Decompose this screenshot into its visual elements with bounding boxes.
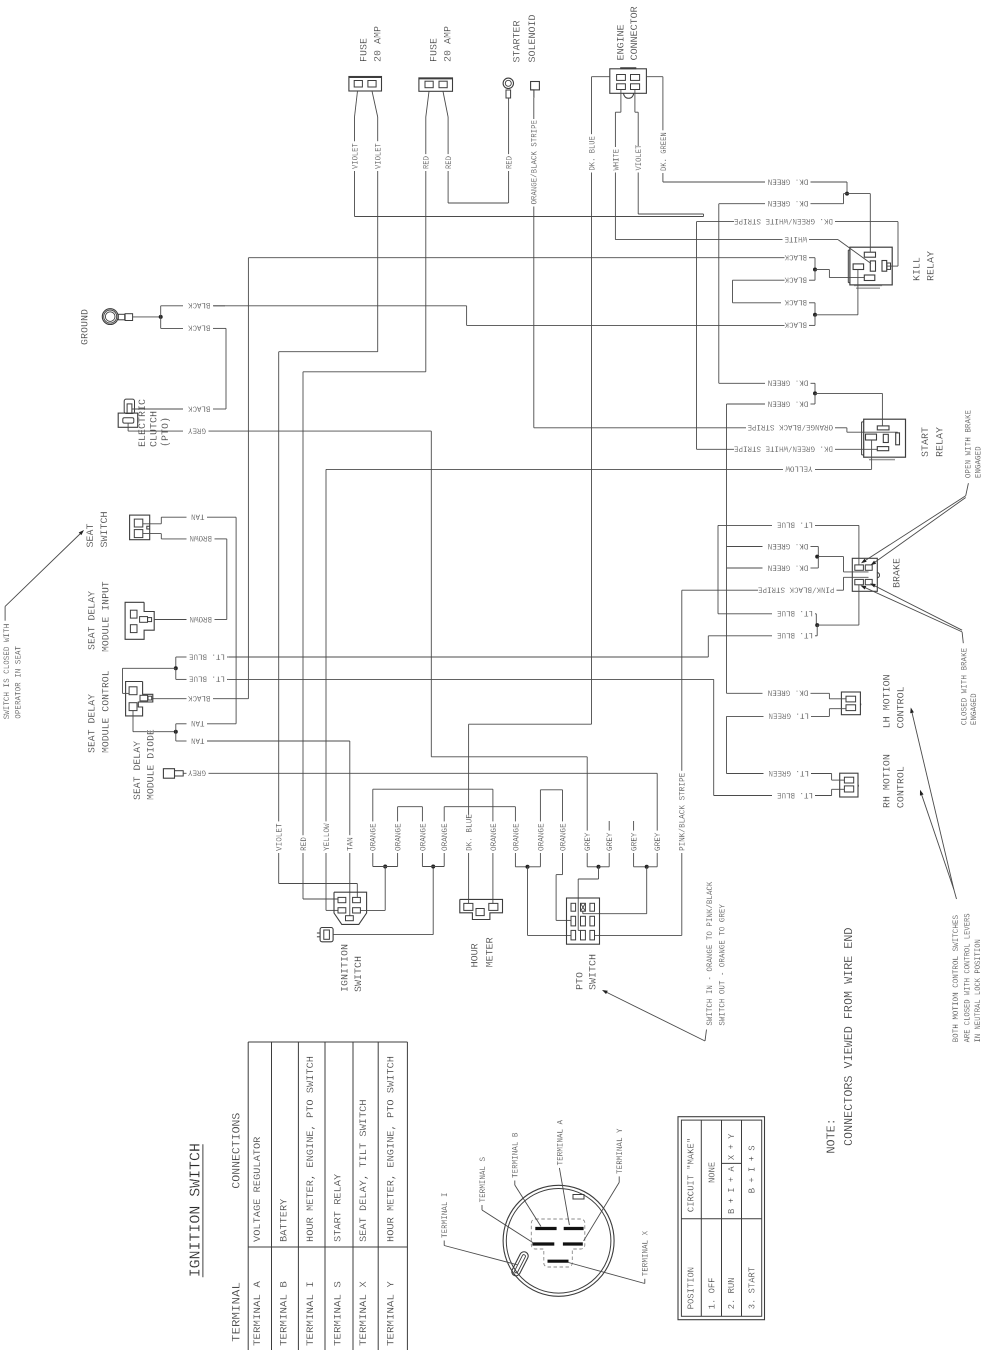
position table row 1 OFF / NONE — [707, 1162, 718, 1310]
leader both-motion to LH CONTROL — [910, 708, 956, 900]
svg-text:TERMINAL X: TERMINAL X — [359, 1281, 370, 1346]
svg-text:ELECTRIC: ELECTRIC — [137, 399, 149, 447]
svg-text:2. RUN: 2. RUN — [726, 1278, 737, 1310]
wire brake DK. GREEN into pin — [818, 557, 868, 572]
svg-text:START RELAY: START RELAY — [334, 1174, 345, 1242]
wire ORANGE stub 4 — [441, 807, 450, 867]
wire start ORANGE/BLACK STRIPE stub — [747, 422, 897, 432]
svg-text:1. OFF: 1. OFF — [707, 1277, 718, 1309]
leader open-with-brake to brake pins — [861, 483, 968, 565]
seat switch connector — [130, 515, 150, 540]
svg-text:ORANGE: ORANGE — [490, 823, 499, 851]
wire seat delay LT. BLUE to connector — [123, 668, 176, 693]
wire engine WHITE — [612, 90, 621, 240]
wire seat switch BROWN — [143, 533, 227, 619]
leader switch-is-closed to seat switch label — [5, 530, 84, 621]
position table header CIRCUIT MAKE — [685, 1138, 696, 1212]
svg-text:BRAKE: BRAKE — [891, 558, 903, 588]
svg-text:RH MOTION: RH MOTION — [881, 754, 893, 808]
wire ORANGE stub 8 — [556, 797, 570, 920]
svg-text:DK. GREEN: DK. GREEN — [768, 198, 809, 207]
wire ignition ORANGE stub 3 — [419, 807, 428, 867]
svg-text:TERMINAL: TERMINAL — [232, 1282, 244, 1342]
label STARTER SOLENOID — [511, 15, 539, 63]
wire hour meter ORANGE stub 5 — [490, 789, 499, 903]
label FUSE 20 AMP (F2) — [429, 26, 455, 62]
svg-text:MODULE INPUT: MODULE INPUT — [101, 581, 113, 652]
label TERMINAL Y — [616, 1128, 625, 1174]
svg-text:RED: RED — [506, 156, 515, 169]
ignition switch table grid — [248, 1042, 407, 1350]
wire GREY stub 1 (clutch) — [584, 821, 598, 867]
wire orange jog O2-O3 — [398, 806, 423, 808]
wire clutch BLACK stub — [132, 403, 211, 412]
terminal pad A — [564, 1227, 584, 1230]
wire engine VIOLET — [635, 90, 704, 217]
svg-text:ORANGE: ORANGE — [370, 823, 379, 851]
label START RELAY — [920, 426, 946, 457]
svg-text:TERMINAL X: TERMINAL X — [642, 1231, 651, 1277]
wire brake DK. GREEN stub 2 — [727, 557, 819, 572]
wire start YELLOW stub — [326, 440, 872, 820]
wire orange bus top — [373, 788, 493, 790]
svg-text:YELLOW: YELLOW — [323, 823, 332, 851]
svg-text:SWITCH: SWITCH — [353, 956, 365, 992]
junction kill DK. GREEN — [845, 192, 849, 196]
svg-text:IN NEUTRAL LOCK POSITION: IN NEUTRAL LOCK POSITION — [974, 939, 983, 1042]
wire ORANGE stub 7 — [528, 790, 547, 867]
seat delay module diode connector — [163, 769, 183, 779]
svg-text:GREY: GREY — [584, 832, 593, 851]
fuse F2 20A — [419, 78, 453, 91]
junction brake LT. BLUE — [815, 623, 819, 627]
wire orange A to ignition pin — [360, 867, 397, 911]
svg-text:CONTROL: CONTROL — [896, 766, 908, 808]
svg-text:DK. GREEN: DK. GREEN — [768, 398, 809, 407]
svg-text:DK. GREEN: DK. GREEN — [768, 541, 809, 550]
svg-text:RED: RED — [423, 156, 432, 169]
wire RH LT. GREEN stub — [727, 768, 845, 780]
leader TERMINAL S to pad S — [482, 1205, 534, 1243]
svg-text:SWITCH IN - ORANGE TO PINK/BLA: SWITCH IN - ORANGE TO PINK/BLACK — [706, 881, 715, 1025]
svg-text:3. START: 3. START — [746, 1267, 757, 1310]
label TERMINAL B — [512, 1132, 521, 1178]
terminal pad Y — [563, 1242, 583, 1245]
svg-text:SOLENOID: SOLENOID — [527, 15, 539, 63]
wire ignition TAN label — [347, 820, 356, 916]
svg-text:BLACK: BLACK — [188, 323, 211, 332]
wire start DK. GREEN to coil pin — [815, 393, 882, 426]
svg-text:ENGAGED: ENGAGED — [974, 446, 983, 478]
svg-text:VOLTAGE REGULATOR: VOLTAGE REGULATOR — [253, 1137, 264, 1242]
junction grey E — [645, 865, 649, 869]
svg-text:SWITCH IS CLOSED WITH: SWITCH IS CLOSED WITH — [3, 624, 12, 720]
svg-text:DK. GREEN: DK. GREEN — [660, 132, 669, 171]
wire kill DK. GREEN stub 1 — [663, 176, 847, 193]
wire ignition RED label — [300, 820, 338, 900]
svg-text:TAN: TAN — [347, 837, 356, 851]
svg-text:B + I + S: B + I + S — [746, 1145, 757, 1193]
svg-text:BLACK: BLACK — [784, 320, 807, 329]
starter solenoid spade terminal — [531, 82, 540, 98]
ignition switch key slot — [510, 1250, 529, 1277]
electric clutch connector — [118, 399, 138, 427]
svg-text:BLACK: BLACK — [784, 297, 807, 306]
svg-text:GREY: GREY — [606, 832, 615, 851]
wire seat delay LT. BLUE stub 2 — [176, 668, 229, 682]
wire kill BLACK to relay left pin — [815, 270, 858, 315]
svg-text:LT. BLUE: LT. BLUE — [189, 651, 225, 660]
wire orange jog O4-O6 — [444, 806, 515, 808]
LH motion control connector — [841, 692, 860, 715]
svg-text:BLACK: BLACK — [188, 403, 211, 412]
note SWITCH IS CLOSED WITH OPERATOR IN SEAT — [3, 624, 24, 720]
hour meter connector — [460, 899, 503, 919]
svg-text:NOTE:: NOTE: — [824, 1118, 838, 1153]
svg-text:TERMINAL I: TERMINAL I — [441, 1193, 450, 1239]
svg-text:SWITCH: SWITCH — [587, 954, 599, 990]
note CONNECTORS VIEWED FROM WIRE END — [842, 928, 856, 1147]
svg-text:WHITE: WHITE — [612, 149, 621, 171]
svg-text:HOUR METER, ENGINE, PTO SWITCH: HOUR METER, ENGINE, PTO SWITCH — [387, 1056, 398, 1242]
wire kill BLACK stub 2 — [733, 270, 816, 303]
ignition switch face circle — [503, 1185, 614, 1296]
svg-text:VIOLET: VIOLET — [276, 823, 285, 851]
PTO switch connector — [567, 898, 600, 944]
position table row 2 RUN / B+I+A X+Y — [726, 1133, 737, 1309]
svg-text:CIRCUIT "MAKE": CIRCUIT "MAKE" — [685, 1138, 696, 1212]
svg-text:VIOLET: VIOLET — [351, 143, 360, 169]
wire RH LT. BLUE stub — [229, 679, 845, 798]
svg-text:RELAY: RELAY — [934, 426, 946, 457]
svg-text:SWITCH: SWITCH — [99, 512, 111, 548]
label FUSE 20 AMP (F1) — [359, 26, 385, 62]
svg-text:BLACK: BLACK — [784, 275, 807, 284]
junction seat delay LT. BLUE — [174, 666, 178, 670]
svg-text:KILL: KILL — [911, 257, 923, 281]
svg-text:DK. GREEN: DK. GREEN — [768, 688, 809, 697]
svg-text:ORANGE/BLACK STRIPE: ORANGE/BLACK STRIPE — [747, 422, 833, 431]
wire ORANGE stub 6 — [512, 807, 527, 867]
label SEAT DELAY MODULE INPUT — [87, 581, 113, 652]
svg-text:CONNECTIONS: CONNECTIONS — [232, 1112, 244, 1188]
engine connector — [610, 68, 647, 98]
svg-text:HOUR: HOUR — [470, 943, 482, 968]
terminal pad S — [532, 1242, 554, 1245]
junction orange B — [431, 865, 435, 869]
svg-text:SEAT DELAY, TILT SWITCH: SEAT DELAY, TILT SWITCH — [359, 1099, 370, 1242]
svg-text:TERMINAL Y: TERMINAL Y — [387, 1281, 398, 1346]
svg-text:ORANGE: ORANGE — [512, 823, 521, 851]
junction grey D — [597, 865, 601, 869]
svg-text:TAN: TAN — [191, 512, 205, 521]
ignition switch pad outline dashed — [531, 1219, 585, 1267]
svg-text:LT. BLUE: LT. BLUE — [777, 608, 813, 617]
svg-text:TAN: TAN — [191, 735, 205, 744]
leader TERMINAL A to pad A — [559, 1168, 569, 1225]
svg-text:20 AMP: 20 AMP — [443, 26, 455, 62]
svg-text:SEAT DELAY: SEAT DELAY — [87, 590, 99, 650]
svg-text:LT. BLUE: LT. BLUE — [777, 520, 813, 529]
note OPEN WITH BRAKE ENGAGED — [965, 410, 984, 478]
svg-text:DK. GREEN: DK. GREEN — [768, 176, 809, 185]
svg-text:TERMINAL S: TERMINAL S — [334, 1281, 345, 1346]
svg-text:RED: RED — [445, 156, 454, 169]
title IGNITION SWITCH (underlined) — [187, 1143, 204, 1277]
svg-text:GREY: GREY — [654, 832, 663, 851]
svg-text:ARE CLOSED WITH CONTROL LEVERS: ARE CLOSED WITH CONTROL LEVERS — [963, 913, 972, 1042]
svg-text:GROUND: GROUND — [79, 309, 91, 345]
junction orange A — [383, 865, 387, 869]
svg-text:DK. BLUE: DK. BLUE — [588, 136, 597, 171]
svg-text:RELAY: RELAY — [926, 250, 938, 281]
wire brake LT. BLUE stub 1 — [718, 520, 859, 614]
wire fuse F2 right RED to solenoid — [443, 91, 508, 203]
terminal pad X — [548, 1260, 569, 1263]
svg-text:FUSE: FUSE — [429, 38, 441, 62]
label TERMINAL S — [479, 1157, 488, 1203]
svg-text:BLACK: BLACK — [188, 693, 211, 702]
wire solenoid ORANGE/BLACK STRIPE — [531, 98, 746, 428]
header TERMINAL — [232, 1282, 244, 1342]
wire start DK. GREEN/WHITE STRIPE stub — [697, 222, 878, 453]
svg-text:ENGINE: ENGINE — [615, 24, 627, 60]
ignition switch connector — [334, 892, 367, 924]
leader both-motion to RH CONTROL — [920, 790, 954, 890]
wire orange jog O7-O8 — [540, 790, 562, 797]
wire brake DK. GREEN stub 1 — [727, 541, 819, 557]
label ENGINE CONNECTOR — [615, 6, 641, 61]
RH motion control connector — [840, 773, 859, 797]
svg-text:CLUTCH: CLUTCH — [148, 411, 160, 447]
wire ignition VIOLET label — [276, 820, 358, 898]
seat delay module input connector — [125, 602, 154, 639]
wire LH LT. GREEN stub — [727, 709, 847, 774]
svg-text:TERMINAL Y: TERMINAL Y — [616, 1128, 625, 1174]
leader closed-with-brake to brake pins — [861, 584, 964, 644]
svg-text:MODULE CONTROL: MODULE CONTROL — [101, 670, 113, 753]
start relay K2 — [862, 419, 906, 460]
svg-text:ORANGE: ORANGE — [419, 823, 428, 851]
svg-text:ORANGE: ORANGE — [395, 823, 404, 851]
wire seat delay TAN up stub — [176, 718, 205, 732]
junction seat delay TAN — [174, 730, 178, 734]
label GROUND — [79, 309, 91, 345]
svg-text:ORANGE: ORANGE — [441, 823, 450, 851]
wire grey E to PTO center pin — [583, 867, 647, 914]
svg-text:FUSE: FUSE — [359, 38, 371, 62]
leader TERMINAL X to pad X — [569, 1263, 645, 1284]
wire seat delay input BROWN — [154, 614, 212, 623]
svg-text:LH MOTION: LH MOTION — [881, 674, 893, 728]
svg-text:PINK/BLACK STRIPE: PINK/BLACK STRIPE — [679, 773, 688, 851]
terminal pad B — [535, 1227, 556, 1230]
table row TERMINAL S — [334, 1174, 345, 1346]
svg-text:DK. GREEN: DK. GREEN — [768, 378, 809, 387]
wire orange C to PTO row3 — [528, 867, 571, 936]
svg-text:STARTER: STARTER — [511, 20, 523, 63]
junction kill BLACK lower — [813, 313, 817, 317]
wire GREY stub 2 — [599, 821, 616, 867]
svg-text:BOTH MOTION CONTROL SWITCHES: BOTH MOTION CONTROL SWITCHES — [952, 915, 961, 1043]
wire start DK. GREEN stub 1 — [719, 378, 815, 394]
svg-text:TAN: TAN — [191, 718, 205, 727]
svg-text:DK. GREEN: DK. GREEN — [768, 562, 809, 571]
wire GREY stub 3 — [631, 821, 647, 867]
wire engine DK. GREEN — [646, 77, 668, 182]
leader TERMINAL Y to pad Y — [584, 1176, 620, 1240]
junction kill BLACK upper — [813, 268, 817, 272]
wire kill WHITE stub — [615, 234, 871, 264]
wire engine DK. BLUE — [469, 77, 610, 815]
svg-text:SEAT: SEAT — [85, 524, 97, 548]
svg-text:LT. BLUE: LT. BLUE — [777, 790, 813, 799]
position table header POSITION — [685, 1267, 696, 1309]
svg-text:IGNITION: IGNITION — [339, 944, 351, 992]
wire kill BLACK stub 3 — [784, 297, 815, 315]
svg-text:CONNECTORS VIEWED FROM WIRE EN: CONNECTORS VIEWED FROM WIRE END — [842, 928, 856, 1147]
label SEAT DELAY MODULE DIODE — [132, 729, 158, 800]
wire brake LT. BLUE to pin — [817, 585, 859, 625]
svg-text:20 AMP: 20 AMP — [373, 26, 385, 62]
svg-text:LT. BLUE: LT. BLUE — [777, 630, 813, 639]
ground lug — [102, 309, 132, 325]
wire GREY stub 4 (diode) — [647, 821, 663, 867]
wire solenoid RED — [506, 98, 515, 203]
svg-text:ENGAGED: ENGAGED — [970, 693, 979, 725]
wire ignition YELLOW label — [323, 820, 338, 911]
wire seat delay TAN stub 2 — [176, 732, 350, 820]
svg-text:CONTROL: CONTROL — [896, 686, 908, 728]
wire brake PINK/BLACK STRIPE stub — [682, 577, 869, 770]
table row TERMINAL X — [359, 1099, 370, 1346]
wire ground BLACK lower stub to clutch — [161, 317, 226, 409]
wire fuse F2 left RED — [303, 91, 432, 819]
wire ground BLACK upper stub — [161, 300, 225, 317]
svg-text:IGNITION SWITCH: IGNITION SWITCH — [187, 1143, 204, 1277]
svg-text:OPEN WITH BRAKE: OPEN WITH BRAKE — [965, 410, 974, 478]
wire clutch GREY — [128, 423, 587, 821]
wire ignition ORANGE stub 1 — [370, 789, 379, 866]
svg-text:TERMINAL I: TERMINAL I — [306, 1281, 317, 1346]
fuse F1 20A — [349, 77, 382, 92]
svg-text:(PTO): (PTO) — [160, 417, 172, 447]
svg-text:BATTERY: BATTERY — [280, 1199, 291, 1242]
wire grey D to PTO — [578, 867, 598, 931]
svg-text:BLACK: BLACK — [188, 300, 211, 309]
wire kill DK. GREEN/WHITE STRIPE stub — [697, 216, 899, 266]
label TERMINAL A — [556, 1120, 565, 1166]
svg-text:X + Y: X + Y — [726, 1133, 737, 1160]
svg-text:BLACK: BLACK — [784, 252, 807, 261]
svg-text:TERMINAL B: TERMINAL B — [280, 1281, 291, 1346]
svg-text:DK. BLUE: DK. BLUE — [466, 814, 475, 851]
label SEAT DELAY MODULE CONTROL — [87, 670, 113, 753]
wire seat switch TAN — [143, 512, 236, 724]
label IGNITION SWITCH — [339, 944, 365, 992]
header CONNECTIONS — [232, 1112, 244, 1188]
wire kill BLACK to relay bottom pin — [815, 270, 864, 278]
svg-text:B + I + A: B + I + A — [726, 1166, 737, 1214]
brake switch connector — [852, 558, 879, 591]
wire fuse F1 right VIOLET — [279, 91, 384, 820]
wire seat delay LT. BLUE stub 1 — [176, 651, 229, 668]
wire hour meter DK. BLUE label — [466, 814, 475, 903]
label LH MOTION CONTROL — [881, 674, 907, 728]
junction orange C — [526, 865, 530, 869]
svg-text:ORANGE: ORANGE — [537, 823, 546, 851]
svg-text:GREY: GREY — [631, 832, 640, 851]
svg-text:BROWN: BROWN — [189, 533, 212, 542]
label TERMINAL I — [441, 1193, 450, 1239]
label ELECTRIC CLUTCH (PTO) — [137, 399, 172, 447]
svg-text:GREY: GREY — [188, 425, 206, 434]
svg-text:VIOLET: VIOLET — [375, 143, 384, 169]
svg-text:LT. GREEN: LT. GREEN — [768, 768, 809, 777]
wire ground to junction — [133, 316, 161, 318]
junction start DK. GREEN — [813, 391, 817, 395]
wire brake LT. BLUE stub 2 — [718, 608, 816, 625]
wire kill DK. GREEN to coil pin — [847, 194, 870, 253]
svg-text:POSITION: POSITION — [685, 1267, 696, 1309]
svg-text:MODULE DIODE: MODULE DIODE — [145, 729, 157, 800]
note SWITCH IN/OUT orange — [706, 881, 728, 1025]
label TERMINAL X — [642, 1231, 651, 1277]
svg-text:VIOLET: VIOLET — [635, 145, 644, 171]
svg-text:RED: RED — [300, 837, 309, 851]
wire start DK. GREEN stub 2 — [727, 393, 816, 693]
svg-text:TERMINAL A: TERMINAL A — [556, 1120, 565, 1166]
seat delay module control connector — [126, 682, 153, 716]
svg-text:GREY: GREY — [188, 768, 206, 777]
svg-text:ORANGE: ORANGE — [559, 823, 568, 851]
wire seat delay diode GREY — [183, 768, 657, 821]
svg-text:SWITCH OUT - ORANGE TO GREY: SWITCH OUT - ORANGE TO GREY — [718, 904, 727, 1026]
svg-text:METER: METER — [485, 937, 497, 968]
table row TERMINAL Y — [387, 1056, 398, 1346]
label KILL RELAY — [911, 250, 937, 281]
svg-text:TERMINAL B: TERMINAL B — [512, 1132, 521, 1178]
svg-text:DK. GREEN/WHITE STRIPE: DK. GREEN/WHITE STRIPE — [734, 216, 833, 225]
position table border — [678, 1117, 765, 1320]
wire key terminal to orange junction — [333, 867, 433, 935]
svg-text:TERMINAL S: TERMINAL S — [479, 1157, 488, 1203]
svg-text:SEAT DELAY: SEAT DELAY — [87, 693, 99, 753]
svg-text:LT. GREEN: LT. GREEN — [768, 711, 809, 720]
wire seat delay TAN stub 1 — [133, 711, 176, 732]
svg-text:NONE: NONE — [707, 1162, 718, 1183]
wire kill BLACK stub 4 (ground bus) — [214, 306, 816, 329]
svg-text:CLOSED WITH BRAKE: CLOSED WITH BRAKE — [960, 648, 969, 725]
table row TERMINAL A — [253, 1137, 264, 1346]
wire fuse F1 left VIOLET — [351, 91, 703, 217]
wire PINK/BLACK STRIPE label — [595, 771, 688, 936]
label SEAT SWITCH — [85, 512, 111, 548]
svg-text:LT. BLUE: LT. BLUE — [189, 674, 225, 683]
label PTO SWITCH — [574, 954, 599, 990]
note CLOSED WITH BRAKE ENGAGED — [960, 648, 979, 725]
leader switch-in-out to PTO SWITCH label — [602, 990, 707, 1041]
junction ground — [159, 315, 163, 319]
position table row 3 START / B+I+S — [746, 1145, 757, 1309]
leader TERMINAL B to pad B — [515, 1181, 541, 1227]
junction brake DK. GREEN — [815, 555, 819, 559]
svg-text:TERMINAL A: TERMINAL A — [253, 1281, 264, 1346]
wire orange B bridge — [422, 866, 444, 868]
svg-text:DK. GREEN/WHITE STRIPE: DK. GREEN/WHITE STRIPE — [734, 444, 833, 453]
svg-text:BROWN: BROWN — [189, 614, 212, 623]
svg-text:START: START — [920, 427, 932, 457]
